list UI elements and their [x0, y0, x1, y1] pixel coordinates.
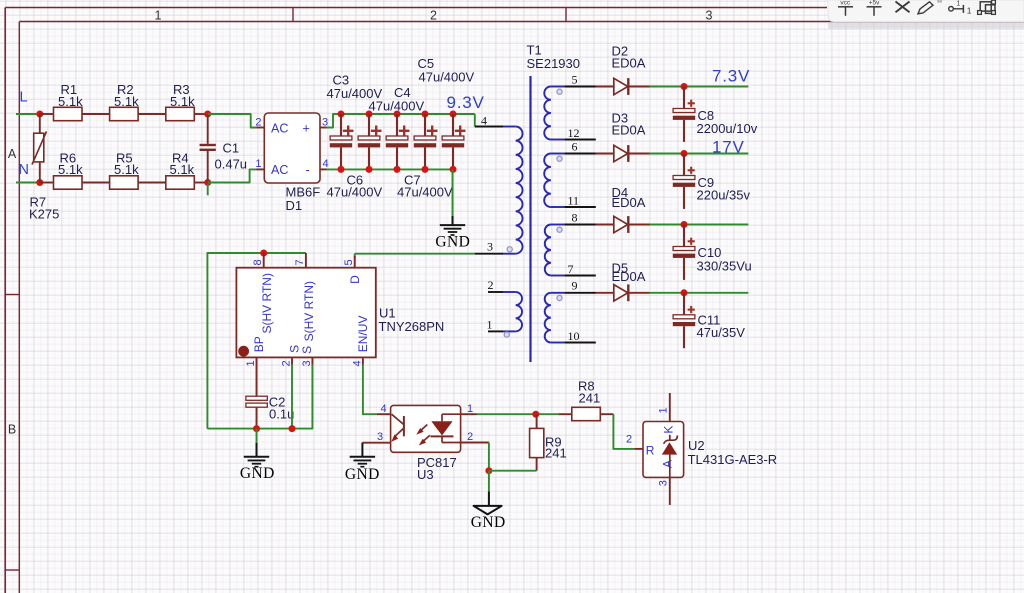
label U1 value TNY268PN: [379, 319, 445, 334]
net label L: [20, 90, 28, 106]
junction feedback node: [532, 411, 539, 418]
U1 pin number 5: [343, 259, 355, 265]
transformer pin 12 line: [564, 139, 596, 141]
svg-text:R: R: [646, 443, 655, 457]
sheet outer border: [5, 8, 827, 593]
transformer pin 5 line: [564, 86, 596, 88]
junction top rail at C5: [394, 111, 401, 118]
svg-text:D1: D1: [286, 198, 303, 213]
bridge pin number 2: [255, 116, 261, 128]
bridge pin4 stub: [320, 168, 327, 170]
svg-text:AC: AC: [271, 163, 288, 177]
label D2 value ED0A: [612, 56, 646, 71]
svg-text:8: 8: [572, 210, 578, 224]
label C4: [394, 85, 411, 100]
label C2: [269, 394, 286, 409]
U1 pin number 2: [280, 360, 292, 366]
capacitor C11: [673, 293, 695, 348]
label U2: [688, 438, 705, 453]
svg-text:8: 8: [252, 259, 264, 265]
bridge pin number 3: [322, 116, 328, 128]
svg-text:S(HV RTN): S(HV RTN): [260, 273, 274, 333]
frame row tick B|C: [5, 569, 19, 571]
U1 pin number 7: [294, 259, 306, 265]
junction output at C11: [681, 289, 688, 296]
pin wire L-R1: [40, 113, 54, 115]
bridge pin name AC bottom: [271, 163, 288, 177]
transformer primary winding pins2-1: [502, 292, 522, 331]
junction L node: [36, 111, 43, 118]
label C2 value 0.1u: [269, 406, 294, 421]
svg-text:GND: GND: [435, 233, 470, 250]
transformer secondary 4 polarity dot: [557, 295, 562, 300]
ground GND U1: [244, 457, 269, 467]
label R7: [30, 195, 47, 210]
label D2: [612, 44, 629, 59]
label U1: [379, 306, 396, 321]
svg-text:4: 4: [323, 158, 329, 170]
label R8 value 241: [579, 391, 601, 406]
svg-text:2: 2: [626, 433, 632, 445]
transformer secondary 2 polarity dot: [557, 156, 562, 161]
U1 pin name S(HV RTN) pin7: [302, 281, 316, 341]
label R5 value 5.1k: [114, 162, 139, 177]
junction output at C10: [681, 221, 688, 228]
svg-text:5.1k: 5.1k: [170, 94, 195, 109]
bridge pin name AC top: [271, 122, 288, 136]
wire D net to transformer pin3: [355, 253, 475, 255]
frame column tick 2|3: [565, 8, 567, 22]
label R8: [578, 378, 595, 393]
wire node to bridge pin1: [208, 169, 257, 182]
wire top DC rail: [333, 113, 475, 115]
frame row tick A|B: [5, 294, 19, 296]
toolbar icon net port: [949, 1, 972, 16]
ground GND primary label: [435, 233, 470, 250]
svg-text:vcc: vcc: [840, 0, 851, 6]
label PC817: [417, 455, 457, 470]
svg-text:C1: C1: [223, 140, 240, 155]
svg-text:3: 3: [658, 480, 670, 486]
U1 pin name EN/UV: [356, 316, 370, 353]
svg-text:47u/400V: 47u/400V: [369, 98, 425, 113]
label R9: [545, 435, 562, 450]
capacitor C8: [673, 87, 695, 142]
svg-text:D: D: [348, 275, 362, 284]
toolbar panel: [828, 0, 1024, 29]
label R7 value K275: [29, 207, 59, 222]
U1 pin 2 stub: [291, 357, 293, 364]
wire source net left vertical: [207, 253, 306, 429]
svg-text:GND: GND: [471, 514, 506, 531]
junction N node: [36, 179, 43, 186]
wire pin1 to R8: [477, 413, 559, 415]
svg-text:-: -: [306, 163, 310, 177]
U1 pin name S pin2: [287, 345, 301, 353]
svg-text:AC: AC: [271, 122, 288, 136]
wire N input: [16, 182, 40, 184]
transformer pin 2 line: [488, 291, 503, 293]
junction top rail at C7: [450, 111, 457, 118]
junction rectified node top: [204, 111, 211, 118]
wire top rail corner to transformer pin4: [474, 114, 476, 127]
toolbar icon +5V flag: [867, 0, 882, 16]
U1 pin 8 stub: [263, 253, 265, 268]
U1 pin 3 stub: [311, 357, 313, 364]
svg-text:7: 7: [294, 259, 306, 265]
U1 pin name S(HV RTN) pin8: [260, 273, 274, 333]
capacitor C7: [442, 114, 466, 169]
label U2 value TL431G-AE3-R: [688, 452, 778, 467]
transformer pin 11 number: [568, 193, 580, 207]
ground GND U3 label: [345, 466, 380, 483]
capacitor C1: [200, 114, 216, 183]
ground GND primary: [440, 225, 465, 235]
svg-text:220u/35v: 220u/35v: [697, 187, 751, 202]
transformer pin 8 line: [564, 224, 596, 226]
svg-text:3: 3: [301, 360, 313, 366]
svg-text:B: B: [8, 423, 16, 437]
label C11: [698, 313, 721, 328]
frame label 3: [706, 8, 713, 22]
transformer secondary winding 2: [544, 154, 564, 208]
junction bottom rail at C4: [366, 166, 373, 173]
capacitor C6: [414, 114, 438, 169]
frame label 2: [430, 8, 437, 22]
diode D3: [596, 145, 650, 162]
R9 top lead: [536, 414, 538, 428]
ground GND U1 label: [240, 465, 275, 482]
svg-text:K: K: [661, 426, 675, 434]
wire U1 pin3 to rail: [207, 365, 312, 429]
U2 pin 1 lead: [669, 393, 671, 422]
label C9 value: [697, 187, 751, 202]
label D1: [286, 198, 303, 213]
U3 LED: [430, 414, 460, 442]
label C4 value 47u/400V: [369, 98, 425, 113]
U3 pin number 4: [380, 403, 386, 415]
U3 phototransistor: [391, 414, 404, 442]
svg-text:1: 1: [245, 360, 257, 366]
svg-text:5.1k: 5.1k: [114, 94, 139, 109]
transformer pin 9 line: [564, 292, 596, 294]
svg-text:U3: U3: [417, 467, 434, 482]
transformer secondary 1 polarity dot: [557, 89, 562, 94]
transformer core: [529, 76, 531, 362]
toolbar icon no-connect X: [896, 2, 910, 13]
wire bottom DC rail: [327, 168, 453, 170]
resistor R1: [54, 107, 83, 120]
U3 light arrows: [416, 425, 430, 446]
ground GND U3: [350, 457, 375, 467]
svg-text:+: +: [303, 122, 310, 136]
transformer pin 9 number: [572, 279, 578, 293]
label C6 value 47u/400V: [327, 184, 383, 199]
ground GND tri stem: [488, 492, 490, 506]
svg-text:+5v: +5v: [869, 0, 880, 6]
svg-text:1: 1: [255, 158, 261, 170]
svg-text:11: 11: [568, 193, 580, 207]
svg-text:1: 1: [467, 403, 473, 415]
U2 pin name K: [661, 426, 675, 434]
svg-text:EN/UV: EN/UV: [356, 316, 370, 353]
label R2 value 5.1k: [114, 94, 139, 109]
pin wire R2-R3: [138, 113, 166, 115]
label C1 value 0.47u: [215, 157, 248, 172]
svg-text:3: 3: [322, 116, 328, 128]
svg-text:TL431G-AE3-R: TL431G-AE3-R: [688, 452, 778, 467]
svg-text:5.1k: 5.1k: [170, 162, 195, 177]
svg-text:1: 1: [658, 407, 670, 413]
svg-text:1: 1: [487, 317, 493, 331]
resistor R5: [110, 176, 139, 189]
svg-text:9: 9: [572, 279, 578, 293]
U2 pin name A: [661, 460, 675, 468]
net label N: [19, 162, 29, 178]
svg-text:U2: U2: [688, 438, 705, 453]
svg-text:5.1k: 5.1k: [58, 162, 83, 177]
resistor R8: [572, 407, 601, 420]
svg-text:ED0A: ED0A: [612, 195, 646, 210]
pin wire R3-node: [194, 113, 207, 115]
label D4 value ED0A: [612, 195, 646, 210]
U3 pin 2 wire: [461, 442, 489, 444]
wire R8 to U2 ref: [613, 414, 634, 449]
svg-text:GND: GND: [345, 466, 380, 483]
pin wire R4-node: [194, 182, 207, 184]
R8 left lead: [559, 413, 572, 415]
frame label 1: [155, 8, 162, 22]
svg-text:9.3V: 9.3V: [447, 93, 485, 112]
toolbar icon VCC flag: [838, 0, 853, 16]
capacitor C10: [673, 225, 695, 280]
label C1: [223, 140, 240, 155]
transformer secondary winding 3: [545, 225, 565, 276]
U1 pin number 1: [245, 360, 257, 366]
net label 17V: [712, 137, 745, 156]
transformer pin 4 line: [475, 126, 503, 128]
svg-text:5: 5: [572, 73, 578, 87]
svg-text:2: 2: [280, 360, 292, 366]
junction rectified node bottom: [204, 179, 211, 186]
transformer pin 3 number: [487, 240, 493, 254]
wire U1 pin4 to PC817: [363, 365, 377, 415]
svg-text:6: 6: [572, 139, 578, 153]
transformer pin 1 number: [487, 317, 493, 331]
U3 pin number 2: [467, 431, 473, 443]
svg-text:ED0A: ED0A: [612, 123, 646, 138]
ground GND primary stem: [452, 216, 454, 225]
svg-text:4: 4: [351, 360, 363, 366]
capacitor C2: [246, 396, 267, 428]
svg-text:1: 1: [155, 8, 162, 22]
U1 pin number 4: [351, 360, 363, 366]
label C7: [404, 172, 421, 187]
svg-text:K275: K275: [29, 207, 59, 222]
net label 9.3V: [447, 93, 485, 112]
U1 pin name S pin3: [300, 346, 314, 354]
U1 pin number 8: [252, 259, 264, 265]
transformer pin 7 line: [564, 275, 596, 277]
junction output at C9: [681, 150, 688, 157]
svg-text:7: 7: [568, 262, 574, 276]
svg-text:S: S: [287, 345, 301, 353]
ground GND triangle label: [471, 514, 506, 531]
transformer secondary 3 polarity dot: [557, 227, 562, 232]
R9 bottom lead: [536, 458, 538, 471]
junction top rail at C6: [422, 111, 429, 118]
U2 pin name R: [646, 443, 655, 457]
transformer pin 4 number: [481, 113, 487, 127]
wire bridge pin3 to top rail: [327, 114, 342, 128]
U1 pin 1 stub: [256, 357, 258, 396]
U1 pin1 marker dot: [238, 346, 249, 357]
U1 pin name BP: [252, 336, 266, 352]
junction source rail at pin2: [289, 425, 296, 432]
optocoupler U3 body: [391, 405, 461, 452]
svg-text:A: A: [8, 147, 17, 161]
frame label B: [8, 423, 16, 437]
U3 pin 3 wire: [362, 442, 390, 444]
label R2: [117, 82, 134, 97]
R8 right lead: [600, 413, 613, 415]
varistor R7: [32, 132, 47, 165]
label R3: [173, 82, 190, 97]
resistor R2: [110, 107, 139, 120]
U1 pin 4 stub: [362, 357, 364, 364]
U2 pin number 1: [658, 407, 670, 413]
U2 pin 3 lead: [669, 477, 671, 505]
diode D2: [596, 78, 650, 95]
label R5: [116, 150, 133, 165]
transformer secondary winding 4: [545, 293, 565, 343]
toolbar icon symbol: [978, 0, 996, 14]
svg-text:4: 4: [380, 403, 386, 415]
transformer primary winding pins4-3: [502, 127, 522, 254]
label D5 value ED0A: [612, 269, 646, 284]
svg-text:2: 2: [255, 116, 261, 128]
svg-text:GND: GND: [240, 465, 275, 482]
wire D4 output: [650, 224, 749, 226]
transformer pin 5 number: [572, 73, 578, 87]
transformer primary polarity dot: [507, 247, 512, 252]
svg-text:5: 5: [343, 259, 355, 265]
label R1: [61, 82, 78, 97]
svg-text:47u/400V: 47u/400V: [397, 184, 453, 199]
svg-text:47u/400V: 47u/400V: [327, 184, 383, 199]
transformer pin 1 line: [488, 330, 503, 332]
toolbar icon pencil: [918, 0, 941, 14]
PC817 pin 4 stub: [377, 413, 391, 415]
svg-text:3: 3: [377, 431, 383, 443]
bridge pin number 1: [255, 158, 261, 170]
label T1: [527, 43, 542, 58]
transformer pin 12 number: [568, 126, 580, 140]
label R4 value 5.1k: [170, 162, 195, 177]
svg-text:1: 1: [967, 5, 972, 15]
ground GND triangle: [474, 506, 502, 515]
capacitor C9: [673, 154, 695, 209]
label C6: [347, 172, 364, 187]
transformer secondary winding 1: [544, 87, 564, 140]
svg-text:7.3V: 7.3V: [712, 67, 750, 86]
U2 pin 2 stub: [634, 448, 643, 450]
label U3: [417, 467, 434, 482]
junction bottom rail at C3: [338, 166, 345, 173]
svg-text:L: L: [20, 90, 28, 106]
U2 body: [643, 422, 684, 478]
label C11 value: [697, 325, 746, 340]
junction bottom rail at C7: [450, 166, 457, 173]
U1 pin number 3: [301, 360, 313, 366]
U2 zener: [662, 435, 678, 478]
label R3 value 5.1k: [170, 94, 195, 109]
transformer pin 11 line: [564, 206, 596, 208]
capacitor C5: [386, 114, 410, 169]
svg-text:A: A: [661, 460, 675, 468]
bridge pin name + top: [303, 122, 310, 136]
ground GND U3 stem: [361, 443, 363, 457]
svg-text:4: 4: [481, 113, 487, 127]
svg-text:5.1k: 5.1k: [114, 162, 139, 177]
junction U1 pin8: [260, 250, 267, 257]
label D3 value ED0A: [612, 123, 646, 138]
wire U1 pin2 to rail: [291, 365, 293, 429]
wire D net corner: [354, 254, 356, 258]
svg-text:330/35Vu: 330/35Vu: [697, 259, 752, 274]
wire D5 output: [650, 292, 749, 294]
ground GND U1 stem: [256, 443, 258, 457]
wire C2 gnd stem: [256, 429, 258, 443]
svg-text:2: 2: [488, 278, 494, 292]
wire L input: [16, 113, 40, 115]
U1 body: [236, 268, 375, 358]
transformer pin 6 line: [564, 153, 596, 155]
label C5 value 47u/400V: [419, 69, 475, 84]
svg-text:0.47u: 0.47u: [215, 157, 248, 172]
svg-text:241: 241: [579, 391, 601, 406]
transformer pin 10 line: [564, 342, 596, 344]
wire D2 output: [650, 86, 749, 88]
label R9 value 241: [545, 446, 567, 461]
svg-text:3: 3: [706, 8, 713, 22]
label D3: [612, 111, 629, 126]
bridge pin1 stub: [257, 168, 265, 170]
label R4: [172, 150, 189, 165]
frame column tick 1|2: [292, 8, 294, 22]
svg-text:1: 1: [956, 1, 960, 8]
net label 7.3V: [712, 67, 750, 86]
wire pin2 down: [488, 443, 490, 471]
label C9: [698, 175, 715, 190]
svg-text:2200u/10v: 2200u/10v: [697, 121, 758, 136]
wire gnd node stem: [488, 471, 490, 492]
label MB6F: [286, 185, 321, 200]
U1 pin 5 stub: [354, 256, 356, 268]
U2 pin number 3: [658, 480, 670, 486]
U2 pin number 2: [626, 433, 632, 445]
bridge rectifier D1 body: [264, 113, 320, 183]
U3 pin number 3: [377, 431, 383, 443]
transformer pin 6 number: [572, 139, 578, 153]
svg-text:ED0A: ED0A: [612, 56, 646, 71]
junction bottom rail at C5: [394, 166, 401, 173]
svg-text:47u/35V: 47u/35V: [697, 325, 746, 340]
svg-text:47u/400V: 47u/400V: [419, 69, 475, 84]
diode D5: [596, 284, 650, 301]
svg-text:S(HV RTN): S(HV RTN): [302, 281, 316, 341]
wire D3 output: [650, 153, 749, 155]
